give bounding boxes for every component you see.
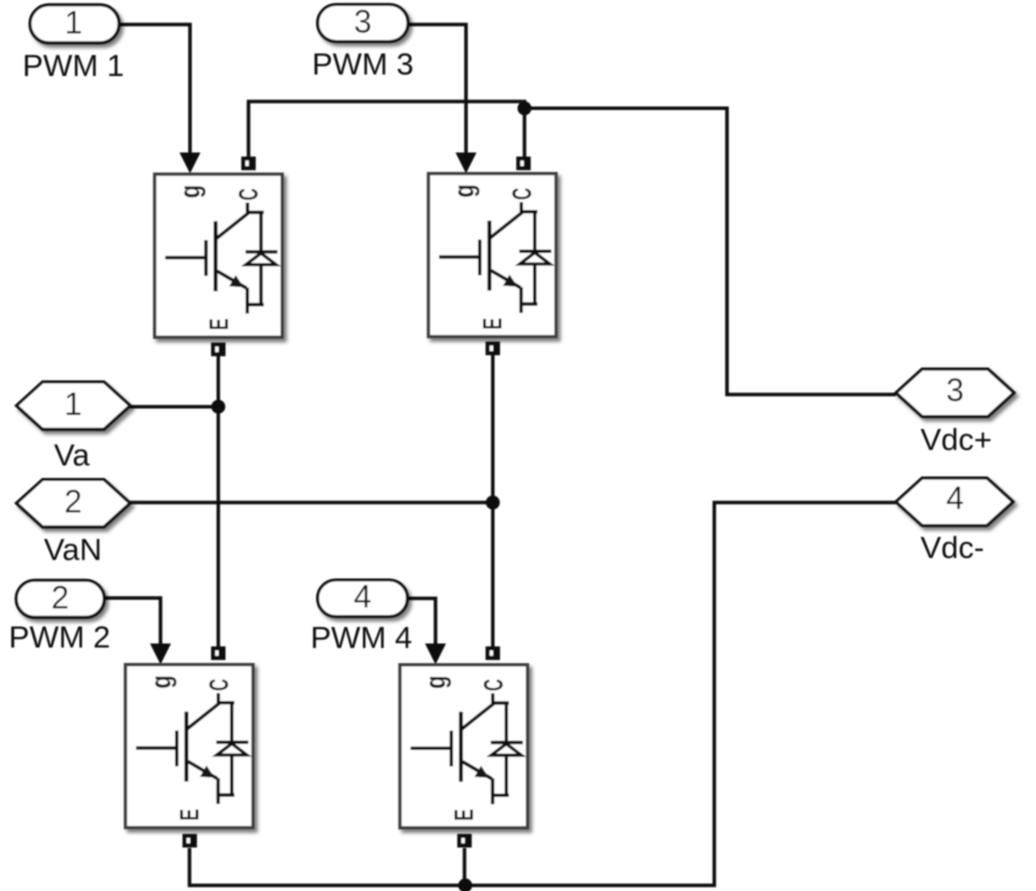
Outport 1 Va hexagon [17, 382, 131, 429]
wire from Inport 2 to gate of IGBT3 [104, 598, 161, 644]
junction node on top bus [518, 101, 532, 115]
Outport 2 VaN hexagon [17, 480, 131, 527]
svg-text:PWM 3: PWM 3 [312, 47, 414, 82]
wire Vdc- bottom bus [190, 503, 897, 886]
wire VaN to node [130, 501, 493, 505]
port square C3 [211, 646, 225, 660]
Inport 4 block [318, 580, 408, 617]
svg-text:Va: Va [54, 438, 90, 473]
port square E4 [457, 834, 471, 848]
Inport 1 block [30, 5, 119, 43]
svg-text:VaN: VaN [44, 532, 102, 567]
svg-text:4: 4 [946, 480, 964, 516]
Inport 3 block [318, 5, 408, 42]
junction node VaN [486, 496, 500, 510]
Outport 3 Vdc+ hexagon [896, 369, 1014, 416]
IGBT block 3 [126, 665, 254, 828]
wire from Inport 1 to gate of IGBT1 [119, 25, 190, 154]
port square E1 [211, 343, 225, 357]
wire E1 to C3 vertical [217, 356, 221, 647]
wire from Inport 3 to gate of IGBT2 [408, 25, 466, 154]
wire from Inport 4 to gate of IGBT4 [407, 598, 435, 644]
svg-text:PWM 2: PWM 2 [9, 620, 111, 655]
svg-text:Vdc+: Vdc+ [921, 422, 993, 457]
port square C1 [241, 157, 255, 171]
svg-text:2: 2 [51, 579, 69, 615]
junction node bottom bus [458, 878, 472, 891]
wire top bus C1 to C2 [249, 102, 525, 158]
svg-text:Vdc-: Vdc- [921, 530, 985, 565]
wire E4 stub to bottom bus [463, 848, 467, 885]
Outport 4 Vdc- hexagon [896, 478, 1013, 525]
arrowhead into IGBT1 gate [180, 153, 201, 174]
svg-text:1: 1 [65, 4, 83, 40]
svg-text:2: 2 [64, 483, 82, 519]
arrowhead into IGBT4 gate [425, 644, 446, 665]
svg-text:3: 3 [354, 3, 372, 39]
svg-text:PWM 1: PWM 1 [23, 48, 125, 83]
wire top bus to Vdc+ [525, 108, 897, 394]
svg-text:PWM 4: PWM 4 [311, 620, 413, 655]
arrowhead into IGBT2 gate [456, 153, 477, 174]
port square E3 [183, 834, 197, 848]
wire E2 to C4 vertical [491, 355, 495, 647]
svg-text:3: 3 [946, 372, 964, 408]
port square C4 [486, 646, 500, 660]
port square C2 [516, 157, 530, 171]
svg-text:4: 4 [354, 579, 372, 615]
IGBT block 1 [155, 174, 283, 337]
IGBT block 2 [429, 174, 557, 337]
arrowhead into IGBT3 gate [150, 644, 171, 665]
wire Va to node [130, 405, 218, 409]
Inport 2 block [16, 580, 104, 617]
IGBT block 4 [400, 665, 528, 828]
port square E2 [486, 342, 500, 356]
junction node Va [211, 400, 225, 414]
svg-text:1: 1 [64, 386, 82, 422]
